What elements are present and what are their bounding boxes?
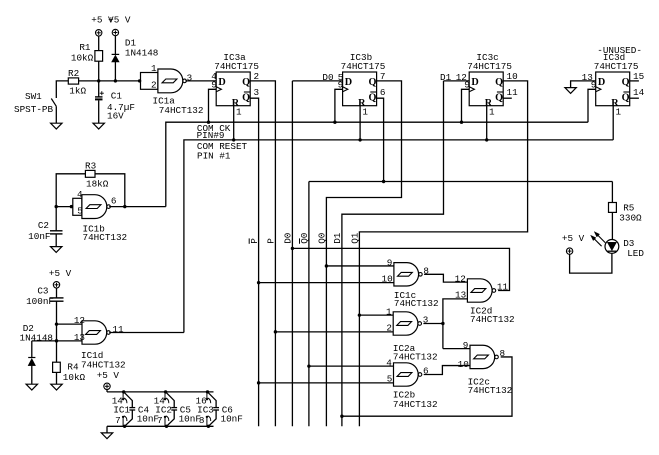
svg-text:C1: C1 <box>111 90 123 101</box>
svg-text:D: D <box>345 77 352 88</box>
svg-text:1: 1 <box>236 106 242 117</box>
svg-text:9: 9 <box>463 340 469 351</box>
svg-text:Q: Q <box>242 92 250 103</box>
wire IC2d pin 13 from IC2a output <box>443 299 468 349</box>
wire D1 staircase from IC3c D down to bus <box>342 81 444 426</box>
svg-text:P: P <box>249 238 260 244</box>
wire C3 stem <box>56 288 58 298</box>
junction R3 right / output <box>123 205 126 208</box>
wire C3 to IC1d input node <box>56 301 58 362</box>
D flip-flop IC3d 74HCT175 <box>596 72 630 106</box>
junction Q0bar <box>382 180 385 183</box>
pin 14 hook (IC1) <box>122 392 124 399</box>
wire IC1c pin 9 from Q0 bus <box>326 265 394 267</box>
ground (C1) <box>93 123 104 129</box>
power symbol +5V (R1 pull-up supply) <box>96 30 102 36</box>
junction IC1d pin 13 node <box>55 339 58 342</box>
resistor R1 10kOhm <box>95 51 103 62</box>
wire Q0bar horizontal run (to R5/LED and bus) <box>309 181 613 183</box>
junction reset bus IC3b <box>358 138 361 141</box>
svg-text:13: 13 <box>74 332 85 343</box>
wire COM RESET net (common reset pin 1 bus) <box>184 140 613 333</box>
wire IC3a Qbar (pin 3) to Pbar bus <box>250 98 258 426</box>
wire IC1d output pin 11 to COM RESET <box>109 332 184 334</box>
ground (D2) <box>26 384 37 390</box>
wire IC2a pin 1 from Q1 bus <box>359 314 393 316</box>
D flip-flop IC3b 74HCT175 <box>343 72 377 106</box>
svg-text:74HCT132: 74HCT132 <box>83 232 128 243</box>
ground (R4) <box>51 384 62 390</box>
wire IC1a output pin 3 to IC3a D <box>185 80 216 82</box>
ground (bypass rail) <box>101 433 112 439</box>
svg-text:6: 6 <box>111 196 117 207</box>
node junction R1/C1 <box>97 79 100 82</box>
svg-text:D0: D0 <box>283 233 294 244</box>
svg-text:74HCT132: 74HCT132 <box>393 399 438 410</box>
wire IC2b pin 4 from Q0bar bus <box>309 365 394 367</box>
pin 7 hook (IC2) <box>164 418 166 427</box>
wire IC3b Q (pin 7) to Q0 bus <box>326 81 401 426</box>
svg-text:Q: Q <box>242 77 250 88</box>
junction Q0 / IC1c.9 <box>325 264 328 267</box>
wire IC2a output pin 3 <box>423 323 443 325</box>
D flip-flop IC3c 74HCT175 <box>469 72 503 106</box>
pin 7 hook (IC1) <box>122 418 124 427</box>
D flip-flop IC3a 74HCT175 <box>216 72 250 106</box>
power symbol +5V (C3) <box>53 282 59 288</box>
svg-text:74HCT175: 74HCT175 <box>594 61 639 72</box>
svg-text:+5 V: +5 V <box>97 370 120 381</box>
svg-text:LED: LED <box>627 248 644 259</box>
svg-text:+5 V: +5 V <box>562 233 585 244</box>
svg-text:12: 12 <box>74 315 85 326</box>
svg-text:12: 12 <box>455 274 466 285</box>
nand gate IC1b 74HCT132 (clock oscillator) <box>73 198 82 215</box>
pin 16 hook (IC3) <box>206 392 208 399</box>
node junction D1 <box>114 79 117 82</box>
svg-text:74HCT132: 74HCT132 <box>394 298 439 309</box>
svg-text:9: 9 <box>387 257 393 268</box>
svg-text:74HCT175: 74HCT175 <box>341 61 386 72</box>
nand gate IC1d 74HCT132 (power-on reset) <box>82 321 107 344</box>
diode D1 1N4148 (clamp to +5V) <box>112 53 120 55</box>
wire IC2c output pin 8 to D1 bus <box>342 357 512 416</box>
wire R2 left to switch <box>56 81 68 98</box>
svg-text:P: P <box>266 238 277 244</box>
wire clock feed IC3a <box>209 89 217 122</box>
wire IC3c Qbar stub (pin 11, unused) <box>503 97 512 99</box>
svg-text:4: 4 <box>77 189 83 200</box>
switch SW1 SPST-PB <box>51 99 56 107</box>
capacitor C3 100nF (power-on reset) <box>50 297 64 299</box>
svg-text:8: 8 <box>199 415 205 426</box>
wire R1 bottom to main node <box>98 61 100 81</box>
wire IC2b pin 5 from Pbar bus <box>259 382 394 384</box>
svg-text:16V: 16V <box>107 111 124 122</box>
svg-text:11: 11 <box>507 87 519 98</box>
nand gate IC2d 74HCT132 <box>467 279 492 302</box>
ground (C2) <box>51 247 62 253</box>
junction Q1 / IC2a.1 <box>358 313 361 316</box>
svg-text:R4: R4 <box>67 361 79 372</box>
nand gate IC1a 74HCT132 (debounce schmitt) <box>141 73 158 90</box>
svg-text:IC1: IC1 <box>113 405 130 416</box>
power symbol +5V (LED) <box>566 248 572 254</box>
svg-text:1N4148: 1N4148 <box>20 332 53 343</box>
svg-text:74HCT132: 74HCT132 <box>159 105 204 116</box>
ground (SW1) <box>51 123 62 129</box>
wire reset feed IC3a <box>233 106 235 140</box>
svg-text:+5 V: +5 V <box>108 14 131 25</box>
nand gate IC2a 74HCT132 <box>393 312 418 335</box>
svg-text:74HCT132: 74HCT132 <box>468 385 513 396</box>
svg-text:PIN #1: PIN #1 <box>197 150 231 161</box>
wire IC2a pin 2 from P bus <box>275 331 393 333</box>
svg-text:330Ω: 330Ω <box>619 212 642 223</box>
nand gate IC2c 74HCT132 <box>470 345 495 368</box>
junction IC2a out / IC2d.13 / IC2c.9 <box>441 322 444 325</box>
bypass capacitor C6 10nF with IC3 power pins 16/8 <box>206 390 209 393</box>
wire IC1d pin 12 input <box>57 323 83 325</box>
wire IC3a Q (pin 2) to P bus <box>250 81 275 426</box>
wire bypass +5V rail <box>106 390 108 392</box>
wire IC2d output pin 11 to D0 bus <box>292 248 509 290</box>
wire IC3d Q stub (pin 15, unused) <box>630 80 639 82</box>
svg-text:D: D <box>471 77 478 88</box>
svg-text:R3: R3 <box>85 160 96 171</box>
svg-text:D1: D1 <box>332 232 343 244</box>
junction clock bus IC3b <box>333 121 336 124</box>
junction IC1b input node <box>55 205 58 208</box>
junction Pbar / IC2b.5 <box>257 381 260 384</box>
svg-text:IC2: IC2 <box>155 405 172 416</box>
junction reset bus IC3c <box>485 138 488 141</box>
wire clock feed IC3d <box>588 89 596 122</box>
svg-text:1: 1 <box>489 106 495 117</box>
svg-text:3: 3 <box>254 87 260 98</box>
svg-text:1: 1 <box>151 63 157 74</box>
wire R3 right to IC1b output <box>95 174 125 207</box>
wire IC3d D tied to ground <box>571 81 596 88</box>
svg-text:R2: R2 <box>68 68 79 79</box>
svg-text:10nF: 10nF <box>28 231 50 242</box>
LED D3 <box>605 240 619 254</box>
svg-text:10: 10 <box>458 359 469 370</box>
svg-text:D0: D0 <box>322 72 333 83</box>
junction D0 / IC2d.11 <box>291 247 294 250</box>
junction Q0bar / IC2b.4 <box>307 364 310 367</box>
svg-text:Q: Q <box>622 92 630 103</box>
junction P / IC2a.2 <box>274 330 277 333</box>
svg-text:74HCT175: 74HCT175 <box>214 61 259 72</box>
svg-text:IC3: IC3 <box>197 405 214 416</box>
power symbol +5V (bypass rail) <box>104 383 110 389</box>
wire IC1c output pin 8 to IC2d pin 12 <box>424 274 467 282</box>
svg-text:1kΩ: 1kΩ <box>69 86 86 97</box>
junction D1 / IC2c.8 <box>340 415 343 418</box>
svg-text:C3: C3 <box>37 285 48 296</box>
wire R1 top stem <box>98 36 100 51</box>
svg-text:R1: R1 <box>79 42 91 53</box>
wire IC1b input <box>56 206 73 208</box>
wire IC2b output pin 6 to IC2c pin 10 <box>424 366 470 375</box>
wire IC3d Qbar stub (pin 14, unused) <box>630 97 639 99</box>
svg-text:14: 14 <box>633 87 645 98</box>
svg-text:1N4148: 1N4148 <box>125 48 158 59</box>
svg-text:Q: Q <box>368 77 376 88</box>
wire D0 bus vertical <box>291 81 293 426</box>
svg-text:C2: C2 <box>38 220 49 231</box>
svg-text:2: 2 <box>151 79 157 90</box>
svg-text:D: D <box>598 77 605 88</box>
svg-text:Q0: Q0 <box>299 233 310 244</box>
wire bypass ground rail <box>107 425 214 427</box>
svg-text:SW1: SW1 <box>25 91 42 102</box>
nand gate IC2b 74HCT132 <box>394 363 419 386</box>
wire IC1d pin 13 input / D2 branch <box>32 340 82 342</box>
wire IC2c pin 9 from IC2a output <box>443 348 470 350</box>
wire IC3c Q (pin 10) to Q1 bus <box>359 81 527 426</box>
wire clock feed IC3b <box>335 89 343 122</box>
svg-text:10nF: 10nF <box>221 414 243 425</box>
svg-text:3: 3 <box>187 73 193 84</box>
svg-text:D: D <box>218 77 225 88</box>
svg-text:4: 4 <box>386 358 392 369</box>
junction Pbar / IC1c.10 <box>257 281 260 284</box>
wire Q0bar to R5 <box>611 182 613 203</box>
svg-text:10kΩ: 10kΩ <box>63 372 86 383</box>
wire switch input node (main horizontal net) <box>79 80 141 82</box>
wire D1 feed into IC3c D (pin 12) <box>444 80 470 82</box>
svg-text:1: 1 <box>616 106 622 117</box>
svg-text:6: 6 <box>380 87 386 98</box>
svg-text:D1: D1 <box>440 72 452 83</box>
resistor R5 330Ohm <box>609 203 617 213</box>
svg-text:Q: Q <box>495 77 503 88</box>
wire LED cathode to +5V <box>570 253 612 273</box>
svg-text:74HCT132: 74HCT132 <box>393 351 438 362</box>
svg-text:100nF: 100nF <box>26 296 54 307</box>
junction clock bus IC3c <box>460 121 463 124</box>
svg-text:74HCT175: 74HCT175 <box>467 61 512 72</box>
resistor R2 1kOhm <box>68 78 78 84</box>
wire IC3b Qbar (pin 6) to Q0bar bus <box>377 98 384 181</box>
svg-text:Q0: Q0 <box>317 233 328 244</box>
wire switch to ground <box>55 106 57 123</box>
svg-text:7: 7 <box>115 415 121 426</box>
wire IC1b output pin 6 to COM CK <box>109 206 166 208</box>
svg-text:7: 7 <box>157 415 163 426</box>
wire IC1c pin 10 from Pbar bus <box>259 282 394 284</box>
LED emission arrows <box>591 232 606 247</box>
resistor R3 18kOhm (IC1b feedback) <box>85 170 95 177</box>
resistor R4 10kOhm <box>53 362 61 372</box>
nand gate IC1c 74HCT132 <box>394 263 419 286</box>
junction clock bus IC3a <box>207 121 210 124</box>
node junction IC1a input <box>138 79 141 82</box>
wire R4 to ground <box>56 372 58 384</box>
diode D2 1N4148 (reset clamp) <box>31 341 33 357</box>
bypass capacitor C4 10nF with IC1 power pins 14/7 <box>122 390 125 393</box>
pin 14 hook (IC2) <box>164 392 166 399</box>
ground (IC3d D input) <box>565 88 576 94</box>
junction reset bus IC3a <box>232 138 235 141</box>
wire R5 to LED <box>611 212 613 239</box>
wire D0 feed into IC3b D (pin 5) <box>292 80 342 82</box>
svg-text:5: 5 <box>77 206 83 217</box>
wire reset feed IC3b <box>359 106 361 140</box>
pin 8 hook (IC3) <box>206 418 208 427</box>
power symbol +5V (D1 clamp supply) <box>112 29 118 35</box>
capacitor C2 10nF (oscillator) <box>55 207 57 231</box>
svg-text:74HCT132: 74HCT132 <box>470 314 515 325</box>
svg-text:+5 V: +5 V <box>49 268 72 279</box>
svg-text:SPST-PB: SPST-PB <box>14 104 53 115</box>
bypass capacitor C5 10nF with IC2 power pins 14/7 <box>164 390 167 393</box>
svg-text:Q1: Q1 <box>350 232 361 244</box>
svg-text:1: 1 <box>362 106 368 117</box>
wire R3 left to IC1b input <box>56 174 85 207</box>
svg-text:Q: Q <box>368 92 376 103</box>
svg-text:Q: Q <box>622 77 630 88</box>
svg-text:1: 1 <box>386 307 392 318</box>
wire COM CK net (common clock pin 9 bus) <box>166 122 588 206</box>
svg-text:11: 11 <box>112 324 124 335</box>
wire reset feed IC3d <box>612 106 614 140</box>
svg-text:10kΩ: 10kΩ <box>71 53 94 64</box>
junction IC1d pin 12 node <box>55 322 58 325</box>
capacitor C1 4.7uF 16V electrolytic <box>98 81 100 97</box>
wire clock feed IC3c <box>462 89 470 122</box>
wire D1 top stem <box>114 36 116 55</box>
svg-text:Q: Q <box>495 92 503 103</box>
wire reset feed IC3c <box>486 106 488 140</box>
svg-text:74HCT132: 74HCT132 <box>81 359 126 370</box>
svg-text:18kΩ: 18kΩ <box>86 179 109 190</box>
